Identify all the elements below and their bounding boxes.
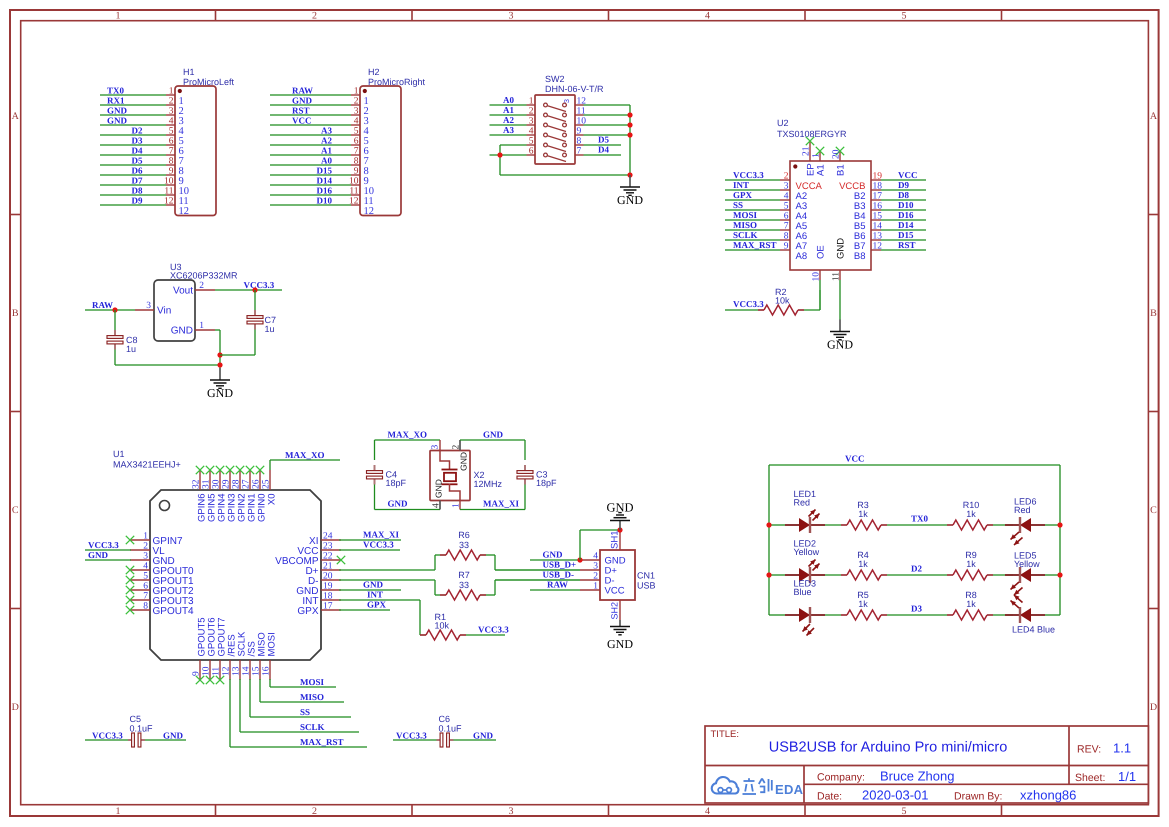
svg-text:GND: GND [88, 550, 109, 560]
svg-text:1: 1 [116, 806, 121, 817]
svg-text:6: 6 [354, 137, 359, 147]
svg-text:29: 29 [222, 479, 232, 489]
svg-text:D8: D8 [132, 186, 143, 196]
svg-text:11: 11 [832, 272, 842, 281]
svg-text:A1: A1 [503, 105, 514, 115]
svg-text:D15: D15 [317, 166, 333, 176]
svg-text:SW2: SW2 [545, 74, 565, 84]
svg-text:D9: D9 [898, 180, 909, 190]
svg-text:GPX: GPX [733, 190, 752, 200]
svg-text:5: 5 [902, 806, 907, 817]
svg-text:MISO: MISO [733, 220, 757, 230]
svg-text:6: 6 [143, 582, 148, 592]
svg-text:A1: A1 [816, 164, 827, 176]
svg-text:26: 26 [252, 479, 262, 489]
svg-text:8: 8 [784, 232, 789, 242]
svg-text:1k: 1k [966, 509, 976, 519]
svg-text:DHN-06-V-T/R: DHN-06-V-T/R [545, 84, 604, 94]
svg-text:GND: GND [434, 479, 444, 498]
svg-text:A3: A3 [503, 125, 514, 135]
svg-text:7: 7 [354, 147, 359, 157]
svg-text:MOSI: MOSI [733, 210, 758, 220]
svg-text:0.1uF: 0.1uF [130, 724, 154, 734]
svg-text:12: 12 [349, 197, 359, 207]
svg-text:D14: D14 [898, 220, 914, 230]
svg-text:H2: H2 [368, 67, 380, 77]
svg-text:VCC3.3: VCC3.3 [733, 299, 764, 309]
svg-text:R7: R7 [458, 570, 470, 580]
svg-text:TX0: TX0 [911, 514, 929, 524]
svg-text:C: C [1150, 505, 1157, 516]
svg-text:12: 12 [222, 666, 232, 676]
svg-text:9: 9 [354, 167, 359, 177]
svg-text:1: 1 [812, 153, 822, 158]
svg-text:D6: D6 [132, 166, 143, 176]
svg-text:5: 5 [902, 11, 907, 22]
svg-text:RAW: RAW [292, 86, 313, 96]
svg-text:VCC3.3: VCC3.3 [363, 540, 394, 550]
svg-text:MOSI: MOSI [267, 632, 278, 656]
svg-text:TX0: TX0 [107, 86, 125, 96]
svg-text:RAW: RAW [547, 580, 568, 590]
svg-text:GND: GND [607, 637, 633, 651]
svg-text:MISO: MISO [300, 692, 324, 702]
svg-text:11: 11 [349, 187, 358, 197]
svg-text:MAX3421EEHJ+: MAX3421EEHJ+ [113, 460, 181, 470]
svg-text:18pF: 18pF [386, 478, 407, 488]
svg-text:1: 1 [529, 97, 534, 107]
svg-text:GND: GND [827, 338, 853, 352]
svg-text:8: 8 [354, 157, 359, 167]
svg-text:31: 31 [202, 479, 212, 489]
svg-text:1u: 1u [265, 324, 275, 334]
svg-text:GPOUT4: GPOUT4 [153, 606, 195, 617]
svg-text:1u: 1u [126, 344, 136, 354]
svg-text:3: 3 [784, 182, 789, 192]
svg-text:3: 3 [593, 562, 598, 572]
svg-text:21: 21 [802, 146, 812, 156]
svg-text:4: 4 [593, 552, 598, 562]
svg-text:Red: Red [1014, 505, 1031, 515]
svg-text:D10: D10 [898, 200, 914, 210]
svg-text:14: 14 [873, 222, 883, 232]
svg-text:Blue: Blue [794, 587, 812, 597]
svg-text:4: 4 [354, 117, 359, 127]
svg-text:7: 7 [143, 592, 148, 602]
svg-text:INT: INT [367, 590, 383, 600]
svg-text:11: 11 [164, 187, 173, 197]
svg-text:A1: A1 [321, 146, 332, 156]
svg-text:Sheet:: Sheet: [1075, 772, 1105, 784]
svg-text:4: 4 [432, 503, 442, 508]
svg-text:2: 2 [169, 97, 174, 107]
svg-text:2: 2 [312, 11, 317, 22]
svg-text:13: 13 [873, 232, 883, 242]
svg-text:OE: OE [816, 245, 827, 259]
svg-text:SS: SS [733, 200, 743, 210]
svg-text:VCC: VCC [898, 170, 918, 180]
svg-text:RST: RST [898, 240, 916, 250]
svg-text:Bruce Zhong: Bruce Zhong [880, 769, 954, 784]
svg-text:SCLK: SCLK [300, 722, 325, 732]
svg-text:6: 6 [784, 212, 789, 222]
svg-text:2: 2 [312, 806, 317, 817]
svg-text:3: 3 [529, 117, 534, 127]
svg-text:REV:: REV: [1077, 744, 1101, 756]
svg-text:USB2USB for Arduino Pro mini/m: USB2USB for Arduino Pro mini/micro [769, 740, 1008, 756]
svg-text:SH1: SH1 [610, 531, 621, 549]
svg-text:GND: GND [459, 452, 469, 471]
svg-text:4: 4 [784, 192, 789, 202]
svg-text:U1: U1 [113, 449, 125, 459]
svg-text:GND: GND [606, 501, 633, 515]
svg-text:GND: GND [363, 580, 384, 590]
svg-text:5: 5 [143, 572, 148, 582]
svg-text:D7: D7 [132, 176, 143, 186]
svg-text:C6: C6 [439, 714, 451, 724]
svg-text:1: 1 [116, 11, 121, 22]
svg-text:D4: D4 [598, 145, 609, 155]
svg-text:A0: A0 [321, 156, 332, 166]
svg-text:VCC3.3: VCC3.3 [478, 625, 509, 635]
svg-text:10: 10 [812, 272, 822, 282]
svg-text:18pF: 18pF [536, 478, 557, 488]
svg-text:D3: D3 [911, 604, 922, 614]
svg-text:2: 2 [452, 445, 462, 450]
svg-text:MAX_XO: MAX_XO [388, 430, 428, 440]
svg-text:GND: GND [107, 106, 128, 116]
svg-text:2020-03-01: 2020-03-01 [862, 788, 929, 803]
svg-text:1: 1 [354, 87, 359, 97]
svg-text:4: 4 [529, 127, 534, 137]
svg-text:USB_D-: USB_D- [543, 570, 575, 580]
svg-text:A: A [1150, 111, 1158, 122]
svg-text:LED4 Blue: LED4 Blue [1012, 625, 1055, 635]
svg-text:23: 23 [323, 542, 333, 552]
svg-text:32: 32 [192, 479, 202, 489]
svg-text:B1: B1 [836, 164, 847, 176]
svg-text:GND: GND [292, 96, 313, 106]
svg-text:TXS0108ERGYR: TXS0108ERGYR [777, 129, 847, 139]
svg-text:4: 4 [705, 11, 710, 22]
svg-text:Vin: Vin [157, 306, 171, 317]
svg-text:19: 19 [873, 172, 883, 182]
svg-text:GND: GND [107, 116, 128, 126]
svg-text:GND: GND [617, 193, 643, 207]
svg-text:VCC: VCC [605, 586, 625, 597]
svg-text:9: 9 [169, 167, 174, 177]
svg-text:1: 1 [452, 503, 462, 508]
svg-text:VCC3.3: VCC3.3 [396, 731, 427, 741]
svg-text:8: 8 [169, 157, 174, 167]
svg-text:8: 8 [143, 602, 148, 612]
svg-text:1k: 1k [858, 559, 868, 569]
svg-text:3: 3 [509, 11, 514, 22]
svg-text:D: D [1150, 702, 1157, 713]
svg-text:13: 13 [232, 666, 242, 676]
svg-text:SCLK: SCLK [733, 230, 758, 240]
svg-text:3: 3 [146, 301, 151, 311]
svg-text:RX1: RX1 [107, 96, 125, 106]
svg-text:2: 2 [143, 542, 148, 552]
svg-text:11: 11 [212, 667, 222, 676]
svg-text:1: 1 [199, 321, 204, 331]
svg-text:4: 4 [705, 806, 710, 817]
svg-text:A: A [12, 111, 20, 122]
svg-text:D9: D9 [132, 196, 143, 206]
svg-text:1: 1 [143, 532, 148, 542]
svg-text:SS: SS [300, 707, 310, 717]
svg-text:20: 20 [323, 572, 333, 582]
svg-text:2: 2 [784, 172, 789, 182]
svg-text:B8: B8 [854, 251, 866, 262]
svg-text:12MHz: 12MHz [474, 479, 503, 489]
svg-text:XC6206P332MR: XC6206P332MR [170, 271, 238, 281]
svg-text:1k: 1k [858, 599, 868, 609]
svg-text:GND: GND [171, 326, 193, 337]
svg-text:Yellow: Yellow [794, 547, 820, 557]
svg-text:12: 12 [179, 206, 190, 217]
svg-text:D: D [12, 702, 19, 713]
svg-text:3: 3 [509, 806, 514, 817]
svg-text:D3: D3 [132, 136, 143, 146]
svg-text:10k: 10k [775, 296, 790, 306]
svg-text:C: C [12, 505, 19, 516]
svg-text:2: 2 [529, 107, 534, 117]
svg-text:Date:: Date: [817, 791, 842, 803]
svg-text:D5: D5 [132, 156, 143, 166]
svg-text:USB_D+: USB_D+ [543, 560, 577, 570]
svg-text:D10: D10 [317, 196, 333, 206]
svg-text:2: 2 [199, 281, 204, 291]
svg-text:18: 18 [873, 182, 883, 192]
svg-text:3: 3 [143, 552, 148, 562]
svg-text:EDA: EDA [775, 782, 804, 797]
svg-text:A8: A8 [796, 251, 808, 262]
svg-text:USB: USB [637, 581, 656, 591]
svg-text:30: 30 [212, 479, 222, 489]
svg-text:24: 24 [323, 532, 333, 542]
svg-text:A3: A3 [321, 126, 332, 136]
svg-text:17: 17 [873, 192, 883, 202]
svg-text:20: 20 [832, 149, 842, 159]
svg-text:27: 27 [242, 479, 252, 489]
svg-text:C5: C5 [130, 714, 142, 724]
svg-text:2: 2 [354, 97, 359, 107]
svg-text:9: 9 [192, 671, 202, 676]
svg-text:1: 1 [593, 582, 598, 592]
svg-text:3: 3 [564, 99, 571, 103]
svg-text:D2: D2 [911, 564, 922, 574]
svg-text:GND: GND [543, 550, 564, 560]
svg-text:VCC: VCC [845, 454, 865, 464]
svg-text:21: 21 [323, 562, 333, 572]
svg-text:MAX_XI: MAX_XI [363, 530, 399, 540]
svg-text:MAX_RST: MAX_RST [300, 737, 344, 747]
svg-text:A0: A0 [503, 95, 514, 105]
svg-text:Vout: Vout [173, 286, 193, 297]
svg-text:D2: D2 [132, 126, 143, 136]
svg-text:1k: 1k [858, 509, 868, 519]
svg-text:VCC: VCC [292, 116, 312, 126]
svg-text:D14: D14 [317, 176, 333, 186]
svg-text:1.1: 1.1 [1113, 741, 1131, 756]
svg-text:D16: D16 [317, 186, 333, 196]
svg-text:Yellow: Yellow [1014, 559, 1040, 569]
svg-text:D8: D8 [898, 190, 909, 200]
svg-text:MAX_XI: MAX_XI [483, 499, 519, 509]
svg-text:GND: GND [836, 238, 847, 259]
svg-text:GPX: GPX [297, 606, 318, 617]
svg-text:22: 22 [323, 552, 333, 562]
svg-text:4: 4 [169, 117, 174, 127]
svg-text:D4: D4 [132, 146, 143, 156]
svg-text:3: 3 [354, 107, 359, 117]
svg-text:1k: 1k [966, 559, 976, 569]
svg-text:6: 6 [529, 147, 534, 157]
svg-text:5: 5 [169, 127, 174, 137]
svg-text:R6: R6 [458, 530, 470, 540]
svg-text:14: 14 [242, 666, 252, 676]
svg-text:33: 33 [459, 580, 469, 590]
svg-text:33: 33 [459, 540, 469, 550]
svg-text:5: 5 [354, 127, 359, 137]
svg-text:U2: U2 [777, 118, 789, 128]
svg-text:GND: GND [388, 499, 409, 509]
svg-text:15: 15 [252, 666, 262, 676]
svg-text:A2: A2 [321, 136, 332, 146]
svg-text:D16: D16 [898, 210, 914, 220]
svg-text:RAW: RAW [92, 300, 113, 310]
svg-text:28: 28 [232, 479, 242, 489]
svg-text:12: 12 [873, 242, 883, 252]
svg-text:7: 7 [784, 222, 789, 232]
svg-text:25: 25 [262, 479, 272, 489]
svg-text:10: 10 [202, 666, 212, 676]
svg-text:VCC3.3: VCC3.3 [92, 731, 123, 741]
svg-text:MOSI: MOSI [300, 677, 325, 687]
svg-text:3: 3 [431, 445, 441, 450]
svg-text:Company:: Company: [817, 772, 865, 784]
svg-text:GPX: GPX [367, 600, 386, 610]
svg-text:9: 9 [577, 127, 582, 137]
svg-text:7: 7 [577, 147, 582, 157]
svg-text:9: 9 [784, 242, 789, 252]
svg-text:B: B [12, 308, 19, 319]
svg-text:5: 5 [784, 202, 789, 212]
svg-text:12: 12 [364, 206, 375, 217]
svg-text:INT: INT [733, 180, 749, 190]
svg-text:0.1uF: 0.1uF [439, 724, 463, 734]
svg-text:CN1: CN1 [637, 571, 655, 581]
svg-text:2: 2 [593, 572, 598, 582]
svg-text:VCC3.3: VCC3.3 [88, 540, 119, 550]
svg-text:VCC3.3: VCC3.3 [244, 280, 275, 290]
svg-text:3: 3 [169, 107, 174, 117]
svg-text:1: 1 [169, 87, 174, 97]
svg-text:4: 4 [143, 562, 148, 572]
svg-text:1k: 1k [966, 599, 976, 609]
svg-text:16: 16 [262, 666, 272, 676]
svg-text:15: 15 [873, 212, 883, 222]
svg-text:GND: GND [473, 731, 494, 741]
svg-text:MAX_XO: MAX_XO [285, 450, 325, 460]
svg-text:5: 5 [529, 137, 534, 147]
svg-text:B: B [1150, 308, 1157, 319]
svg-text:D15: D15 [898, 230, 914, 240]
svg-text:VCC3.3: VCC3.3 [733, 170, 764, 180]
svg-text:16: 16 [873, 202, 883, 212]
svg-text:GND: GND [207, 386, 233, 400]
svg-text:19: 19 [323, 582, 333, 592]
svg-text:Drawn By:: Drawn By: [954, 791, 1002, 803]
svg-text:xzhong86: xzhong86 [1020, 788, 1076, 803]
svg-text:18: 18 [323, 592, 333, 602]
svg-text:A2: A2 [503, 115, 514, 125]
svg-text:8: 8 [577, 137, 582, 147]
svg-text:RST: RST [292, 106, 310, 116]
svg-text:Red: Red [794, 498, 811, 508]
svg-text:10k: 10k [435, 621, 450, 631]
svg-text:MAX_RST: MAX_RST [733, 240, 777, 250]
svg-text:GND: GND [163, 731, 184, 741]
svg-text:D5: D5 [598, 135, 609, 145]
svg-text:10: 10 [349, 177, 359, 187]
svg-text:TITLE:: TITLE: [711, 729, 740, 740]
svg-text:6: 6 [169, 137, 174, 147]
svg-text:12: 12 [164, 197, 174, 207]
svg-text:10: 10 [164, 177, 174, 187]
svg-text:X0: X0 [267, 494, 278, 506]
svg-text:17: 17 [323, 602, 333, 612]
svg-text:1/1: 1/1 [1118, 769, 1136, 784]
svg-text:H1: H1 [183, 67, 195, 77]
svg-text:SH2: SH2 [610, 602, 620, 620]
svg-text:7: 7 [169, 147, 174, 157]
svg-text:GND: GND [483, 430, 504, 440]
